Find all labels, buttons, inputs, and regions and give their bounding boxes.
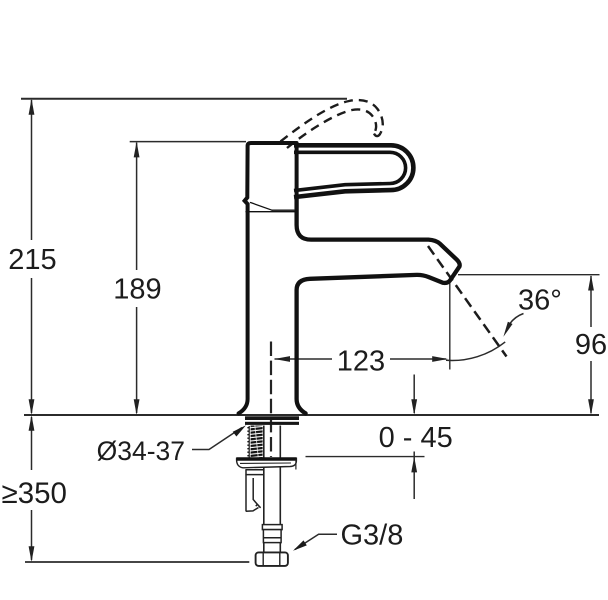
- housing bottom thin lines: [246, 211, 295, 213]
- svg-text:≥350: ≥350: [2, 477, 67, 510]
- countertop line: [24, 414, 599, 416]
- thread crest serration line: [248, 426, 250, 458]
- svg-text:215: 215: [8, 244, 56, 276]
- svg-text:Ø34-37: Ø34-37: [97, 436, 185, 466]
- body right edge, spout, tip: [297, 197, 460, 413]
- bottom supply line: [25, 561, 249, 563]
- svg-text:36°: 36°: [518, 285, 562, 317]
- hose through shank: [264, 426, 281, 553]
- angle arc: [446, 342, 505, 361]
- handle-top reference line (189): [130, 141, 246, 143]
- svg-text:G3/8: G3/8: [341, 520, 404, 552]
- svg-text:189: 189: [113, 274, 161, 306]
- handle housing: [245, 143, 295, 212]
- top reference line (spout max height 215): [21, 98, 347, 100]
- spout-tip reference line (96): [458, 274, 600, 276]
- washer reference line: [306, 456, 425, 458]
- svg-text:96: 96: [575, 329, 607, 361]
- svg-text:0 - 45: 0 - 45: [379, 422, 453, 454]
- spout tip vertical line: [449, 278, 451, 370]
- svg-text:123: 123: [337, 346, 385, 378]
- body left edge + base flare: [239, 213, 248, 414]
